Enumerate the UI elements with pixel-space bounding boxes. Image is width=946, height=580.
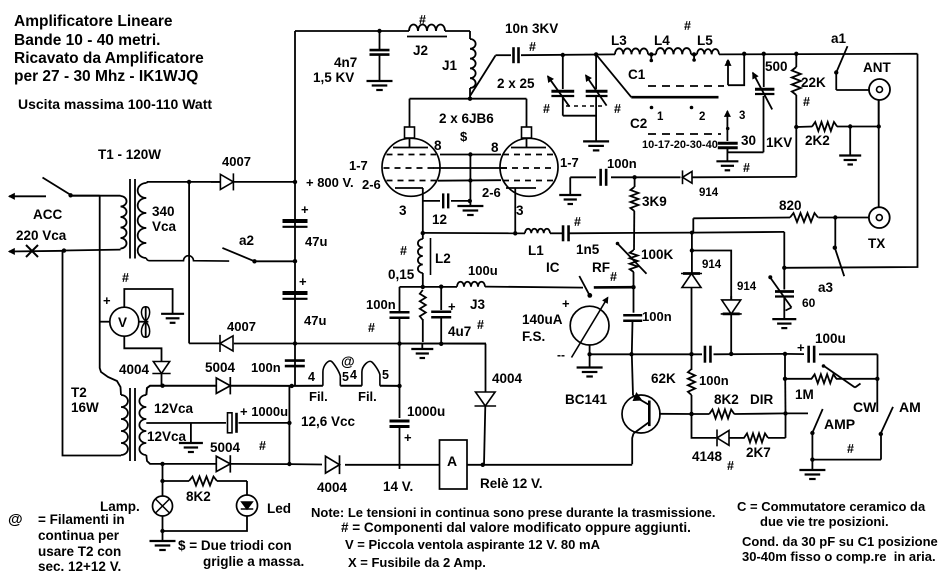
svg-text:5: 5 <box>342 370 349 384</box>
ground fan <box>161 314 184 323</box>
wire zener1 vertical <box>690 233 694 274</box>
label 2K7 <box>746 445 771 460</box>
svg-text:+ 800 V.: + 800 V. <box>306 175 354 190</box>
svg-text:1KV: 1KV <box>766 135 792 150</box>
wire J1 bottom <box>469 88 471 99</box>
label 4007 upper <box>222 154 251 169</box>
label # above L4L5 <box>684 19 691 33</box>
label 3K9 <box>642 194 667 209</box>
capacitor 100n bus <box>705 346 711 363</box>
label L5 <box>697 33 713 48</box>
svg-text:C2: C2 <box>630 116 647 131</box>
label $ tubes <box>460 129 468 144</box>
fan circle V <box>110 307 139 336</box>
tap dot L3-L4 <box>648 52 656 62</box>
label 1M <box>795 387 814 402</box>
svg-text:ANT: ANT <box>863 60 891 75</box>
label L4 <box>654 33 670 48</box>
rheostat 100K <box>630 250 638 287</box>
svg-text:F.S.: F.S. <box>522 329 545 344</box>
TX connector <box>869 207 890 228</box>
svg-text:1M: 1M <box>795 387 814 402</box>
svg-text:L1: L1 <box>528 243 544 258</box>
led <box>237 495 258 516</box>
svg-text:griglie a massa.: griglie a massa. <box>203 554 304 569</box>
label C1 <box>628 67 646 82</box>
capacitor 1000u first <box>228 413 237 433</box>
label 1 <box>657 111 664 123</box>
svg-text:4004: 4004 <box>119 362 150 377</box>
svg-text:Vca: Vca <box>152 219 177 234</box>
label + 1000u <box>240 404 288 419</box>
svg-text:# = Componenti dal valore modi: # = Componenti dal valore modificato opp… <box>341 520 691 535</box>
svg-text:#: # <box>743 161 750 175</box>
ground 60 <box>772 319 796 328</box>
tube V1 top cap <box>405 127 415 148</box>
switch C2 wiper arrow <box>725 111 730 133</box>
node 1M bottom <box>783 411 787 415</box>
capacitor C 47u upper plates <box>283 202 310 227</box>
junction dot collector node <box>629 352 633 356</box>
svg-text:4004: 4004 <box>317 480 348 495</box>
label 3 V1 <box>399 203 407 218</box>
tick to zener2 <box>692 251 731 301</box>
wire 12V filter vertical <box>399 344 401 469</box>
label C2 <box>630 116 647 131</box>
T2 center tap wire <box>146 422 289 424</box>
label IC <box>546 260 560 275</box>
svg-text:2K2: 2K2 <box>805 133 830 148</box>
label # J3 <box>477 318 484 332</box>
note line 4 <box>348 555 486 570</box>
capacitor C 47u lower plates <box>283 274 308 299</box>
relay box A <box>440 440 468 489</box>
svg-text:+: + <box>299 274 307 289</box>
gang dashed link <box>566 105 606 107</box>
meter needle <box>572 298 608 358</box>
svg-text:X = Fusibile da 2 Amp.: X = Fusibile da 2 Amp. <box>348 555 486 570</box>
label # 22K <box>803 95 810 109</box>
label 2 x 6JB6 <box>439 111 494 126</box>
svg-text:Note: Le tensioni in continua: Note: Le tensioni in continua sono prese… <box>311 505 716 520</box>
svg-text:#: # <box>477 318 484 332</box>
corner 100u right <box>877 354 879 379</box>
label AM <box>899 399 921 415</box>
capacitor 10n 3KV <box>514 47 519 63</box>
svg-text:5004: 5004 <box>210 440 241 455</box>
junction dot trimmer1 <box>561 53 565 57</box>
ground below grid stub <box>559 195 581 204</box>
svg-text:2-6: 2-6 <box>482 185 501 200</box>
T2 primary bottom wire <box>63 251 122 456</box>
svg-text:Amplificatore Lineare: Amplificatore Lineare <box>14 13 173 30</box>
svg-text:914: 914 <box>737 281 757 293</box>
svg-text:Ricavato da Amplificatore: Ricavato da Amplificatore <box>14 50 204 67</box>
svg-text:2-6: 2-6 <box>362 177 381 192</box>
label 4004 flyback <box>492 371 523 386</box>
tube V2 anode <box>511 147 546 149</box>
svg-text:L3: L3 <box>611 33 627 48</box>
label J2 <box>413 43 428 58</box>
svg-text:3: 3 <box>399 203 407 218</box>
label ACC <box>33 207 62 222</box>
svg-text:#: # <box>400 244 407 258</box>
svg-text:60: 60 <box>802 296 816 310</box>
capacitor 100n mid <box>390 312 410 343</box>
resistor 62K <box>688 354 695 414</box>
svg-text:10n 3KV: 10n 3KV <box>505 21 558 36</box>
capacitor 1000u second <box>390 421 410 427</box>
label 100n bus <box>699 373 729 388</box>
svg-text:1-7: 1-7 <box>349 158 368 173</box>
svg-text:10-17-20-30-40: 10-17-20-30-40 <box>642 139 718 151</box>
T2 sec bottom wire <box>146 455 216 464</box>
L2 core bar <box>430 238 432 275</box>
rheostat 1M <box>785 374 877 383</box>
label 10n 3KV <box>505 21 558 36</box>
diode 4004 flyback <box>475 344 497 465</box>
label Relè 12 V. <box>480 476 543 491</box>
emitter wire <box>632 434 633 465</box>
label L3 <box>611 33 627 48</box>
switch a2 arm <box>222 248 295 264</box>
T1 core <box>130 179 135 259</box>
svg-text:+: + <box>103 293 111 308</box>
ground below trimmer 2 <box>583 141 609 150</box>
ground below 30 <box>716 148 738 171</box>
label 5004 no2 <box>210 440 241 455</box>
label BC141 <box>565 392 608 407</box>
ground below 4n7 <box>367 81 393 90</box>
svg-text:140uA: 140uA <box>522 312 563 327</box>
label 100n coll <box>642 309 672 324</box>
junction dot 500 <box>762 52 766 56</box>
svg-text:J1: J1 <box>442 58 458 73</box>
label DIR <box>750 392 774 407</box>
label a1 <box>831 31 847 46</box>
capacitor 4n7 <box>370 31 390 81</box>
wire AM down <box>880 434 882 460</box>
node a3 60 <box>782 266 786 270</box>
label # above J2 <box>419 13 426 27</box>
relay feed wire <box>289 463 439 466</box>
svg-text:14 V.: 14 V. <box>383 479 413 494</box>
label a2 <box>239 233 254 248</box>
svg-text:4u7: 4u7 <box>448 324 471 339</box>
label 914 z1 <box>702 259 722 271</box>
svg-text:J3: J3 <box>470 297 486 312</box>
label L2 <box>435 251 451 266</box>
meter minus bus <box>590 353 785 355</box>
label 2 x 25 <box>497 76 535 91</box>
label RF <box>592 260 610 275</box>
diode 5004 no2 <box>216 455 289 472</box>
junction dot pos3 <box>742 52 746 56</box>
label 2K2 <box>805 133 830 148</box>
top plate feed wire <box>295 30 409 32</box>
label 12,6 Vcc <box>301 414 356 429</box>
svg-text:#: # <box>368 321 375 335</box>
label 914 series <box>699 187 719 199</box>
note line 1 <box>311 505 716 520</box>
wire 2K7 branch <box>692 414 717 438</box>
label 4148 <box>692 449 723 464</box>
resistor 820 <box>693 213 835 222</box>
node dot B+ vert crossing <box>293 341 297 345</box>
mains lower line with arrow and fuse X <box>9 245 121 257</box>
capacitor 4u7 <box>431 287 451 345</box>
cap 500 arrow <box>753 73 772 110</box>
switch a3 arm <box>835 248 844 277</box>
svg-text:500: 500 <box>765 59 788 74</box>
wire A to emitter <box>467 463 632 467</box>
svg-text:#: # <box>847 442 854 456</box>
svg-text:12Vca: 12Vca <box>147 429 187 444</box>
resistor 2K2 <box>796 122 878 131</box>
switch CW contact <box>876 379 878 412</box>
wire diagonal J1 to 10n <box>470 56 496 97</box>
rheostat 100K arrow <box>616 242 647 274</box>
svg-text:#: # <box>529 40 536 54</box>
svg-text:4n7: 4n7 <box>334 55 357 70</box>
label 100n grid <box>607 156 637 171</box>
svg-text:continua per: continua per <box>38 528 120 543</box>
choke J3 <box>457 282 485 287</box>
ground below grids <box>457 206 483 215</box>
label 10-17-20-30-40 <box>642 139 718 151</box>
wire 62K to base <box>659 412 694 416</box>
svg-text:TX: TX <box>868 236 885 251</box>
label 4004 lamp <box>119 362 150 377</box>
trimmer 60 arrow <box>768 275 791 310</box>
main B+ vertical wire <box>294 31 296 386</box>
filament tent 1 <box>323 361 340 386</box>
svg-text:2 x 6JB6: 2 x 6JB6 <box>439 111 494 126</box>
junction dot zener branch <box>690 231 694 235</box>
switch a1 arm <box>834 46 847 75</box>
svg-text:@: @ <box>8 511 23 528</box>
svg-text:#: # <box>543 102 550 116</box>
label 4 fil1 <box>308 370 315 384</box>
tube1 anode drop <box>409 99 411 127</box>
svg-text:4148: 4148 <box>692 449 723 464</box>
wire a3 vertical <box>833 218 837 250</box>
coil L1 <box>525 229 550 234</box>
tube V2 top cap <box>522 127 532 148</box>
svg-text:2: 2 <box>699 111 705 123</box>
svg-text:220 Vca: 220 Vca <box>16 228 67 243</box>
svg-text:1000u: 1000u <box>407 404 445 419</box>
trimmer 1 arrow <box>548 76 570 106</box>
label ANT <box>863 60 891 75</box>
wire TX line <box>835 217 869 219</box>
svg-text:8: 8 <box>434 138 442 153</box>
note line 2 <box>341 520 691 535</box>
grid link line1 <box>440 152 501 156</box>
tube V1 cathode line <box>395 187 423 189</box>
svg-text:100n: 100n <box>251 360 281 375</box>
collector wire <box>632 354 633 395</box>
label a3 <box>818 280 834 295</box>
resistor 2K7 <box>744 413 786 442</box>
svg-text:a2: a2 <box>239 233 254 248</box>
label 5 fil1 <box>342 370 349 384</box>
wire a1 to ANT <box>836 73 869 91</box>
label 8 V2 <box>491 140 499 155</box>
zener 914 no2 <box>721 296 742 354</box>
wire to 10n cap <box>496 54 512 56</box>
svg-text:3: 3 <box>516 203 524 218</box>
switch C1 wiper diagonal <box>596 54 631 97</box>
label 0,15 <box>388 267 415 282</box>
diode D1 4007 upper <box>211 173 295 190</box>
svg-text:Led: Led <box>267 501 291 516</box>
svg-text:#: # <box>610 270 617 284</box>
svg-text:L2: L2 <box>435 251 451 266</box>
svg-text:+: + <box>562 296 570 311</box>
svg-text:62K: 62K <box>651 371 676 386</box>
svg-text:2K7: 2K7 <box>746 445 771 460</box>
label 4007 lower <box>227 319 256 334</box>
svg-text:4004: 4004 <box>492 371 523 386</box>
tap dot L4-L5 <box>691 52 697 62</box>
svg-text:$: $ <box>460 129 468 144</box>
label + 800 V. <box>306 175 354 190</box>
label Fil. 1 <box>309 389 328 404</box>
label + meter <box>562 296 570 311</box>
label # near 10n <box>529 40 536 54</box>
label J1 <box>442 58 458 73</box>
junction dot 3K9 top <box>632 175 636 179</box>
junction dot 1M node top <box>783 352 787 356</box>
svg-text:#: # <box>419 13 426 27</box>
svg-text:T1 - 120W: T1 - 120W <box>98 147 161 162</box>
right edge wire <box>784 54 917 268</box>
node 22K bottom <box>794 125 798 129</box>
label 4u7 <box>448 324 471 339</box>
svg-text:12,6 Vcc: 12,6 Vcc <box>301 414 356 429</box>
label Led <box>267 501 291 516</box>
label 140uA <box>522 312 563 327</box>
svg-text:V = Piccola ventola aspirante: V = Piccola ventola aspirante 12 V. 80 m… <box>345 537 601 552</box>
coil L3 <box>615 48 648 54</box>
label 8K2 lamp <box>186 489 211 504</box>
label 100K <box>641 247 674 262</box>
grid link line3 <box>438 178 501 182</box>
label 1000u second <box>407 404 445 419</box>
ground lamp <box>150 531 176 550</box>
filament mid wire <box>340 385 362 387</box>
label 8 V1 <box>434 138 442 153</box>
label 100u J3 <box>468 263 498 278</box>
led feed <box>246 481 248 496</box>
T1 secondary top wire <box>146 182 220 183</box>
svg-text:A: A <box>447 453 457 469</box>
lamp feed wire <box>162 464 164 496</box>
ANT connector <box>869 79 890 100</box>
tube V2 grid dashes <box>501 155 556 181</box>
label 4 fil2 <box>350 368 357 382</box>
svg-text:16W: 16W <box>71 400 99 415</box>
T2 sec top wire <box>146 386 216 395</box>
wire L5 to right <box>719 53 918 56</box>
svg-text:V: V <box>118 315 127 330</box>
wire grid gnd stub <box>569 177 571 195</box>
svg-text:a3: a3 <box>818 280 834 295</box>
svg-text:Uscita massima 100-110 Watt: Uscita massima 100-110 Watt <box>18 96 212 112</box>
mains switch arm <box>43 178 73 198</box>
svg-text:usare T2 con: usare T2 con <box>38 544 121 559</box>
svg-text:Cond. da 30 pF su C1 posizione: Cond. da 30 pF su C1 posizione <box>742 534 938 549</box>
transistor base chain dot <box>689 412 693 416</box>
capacitor 100n on B+ vert <box>285 361 305 367</box>
zener 914 no1 <box>681 274 702 355</box>
svg-text:BC141: BC141 <box>565 392 608 407</box>
junction dot 8K2 lamp <box>160 479 164 483</box>
svg-text:#: # <box>574 215 581 229</box>
label 62K <box>651 371 676 386</box>
svg-text:#: # <box>803 95 810 109</box>
tube V1 envelope <box>382 138 440 196</box>
wire grid line right <box>635 176 681 178</box>
junction dot 4n7 <box>377 29 381 33</box>
label AMP <box>824 416 855 432</box>
label 4n7 <box>313 55 357 85</box>
fan top gnd loop <box>124 289 172 314</box>
svg-text:--: -- <box>557 348 565 362</box>
svg-text:340: 340 <box>152 204 175 219</box>
wire 60 vertical <box>783 232 785 290</box>
label 3 <box>739 110 745 122</box>
label 12 <box>432 212 447 227</box>
ground switches <box>799 460 825 479</box>
trimmer cap 1 (2x25) <box>551 55 574 116</box>
wire and ground 2K2 <box>839 127 861 165</box>
svg-text:4007: 4007 <box>227 319 256 334</box>
label + 1000u2 <box>404 430 412 445</box>
svg-text:C1: C1 <box>628 67 646 82</box>
resistor 22K <box>792 54 801 127</box>
diode 4148 <box>717 429 745 446</box>
transistor BC141 <box>622 393 660 434</box>
svg-text:4: 4 <box>350 368 357 382</box>
trimmer 2 arrow <box>586 75 607 105</box>
corner cathode to a3 node <box>693 231 784 234</box>
svg-text:8K2: 8K2 <box>186 489 211 504</box>
label 1-7 V1 <box>349 158 368 173</box>
label @ fil <box>341 353 355 369</box>
svg-text:#: # <box>122 271 129 285</box>
svg-text:30: 30 <box>741 133 756 148</box>
junction dot a3 top <box>833 215 837 219</box>
svg-text:C = Commutatore ceramico da: C = Commutatore ceramico da <box>737 499 926 514</box>
switch C1 pos3 link <box>728 54 744 85</box>
label 820 <box>779 198 802 213</box>
grid ground vertical <box>468 155 472 207</box>
tube V2 cathode drop <box>513 188 517 236</box>
led bottom wire <box>163 516 248 531</box>
junction dot 12V top <box>290 384 294 388</box>
T2 core <box>130 388 135 461</box>
label 12Vca bottom <box>147 429 187 444</box>
resistor 0.15 below L2 <box>420 273 426 342</box>
svg-text:#: # <box>727 459 734 473</box>
svg-text:+: + <box>301 202 309 217</box>
label Lamp. <box>100 499 140 514</box>
label TX <box>868 236 885 251</box>
label Fil. 2 <box>358 389 377 404</box>
label CW <box>853 399 877 415</box>
